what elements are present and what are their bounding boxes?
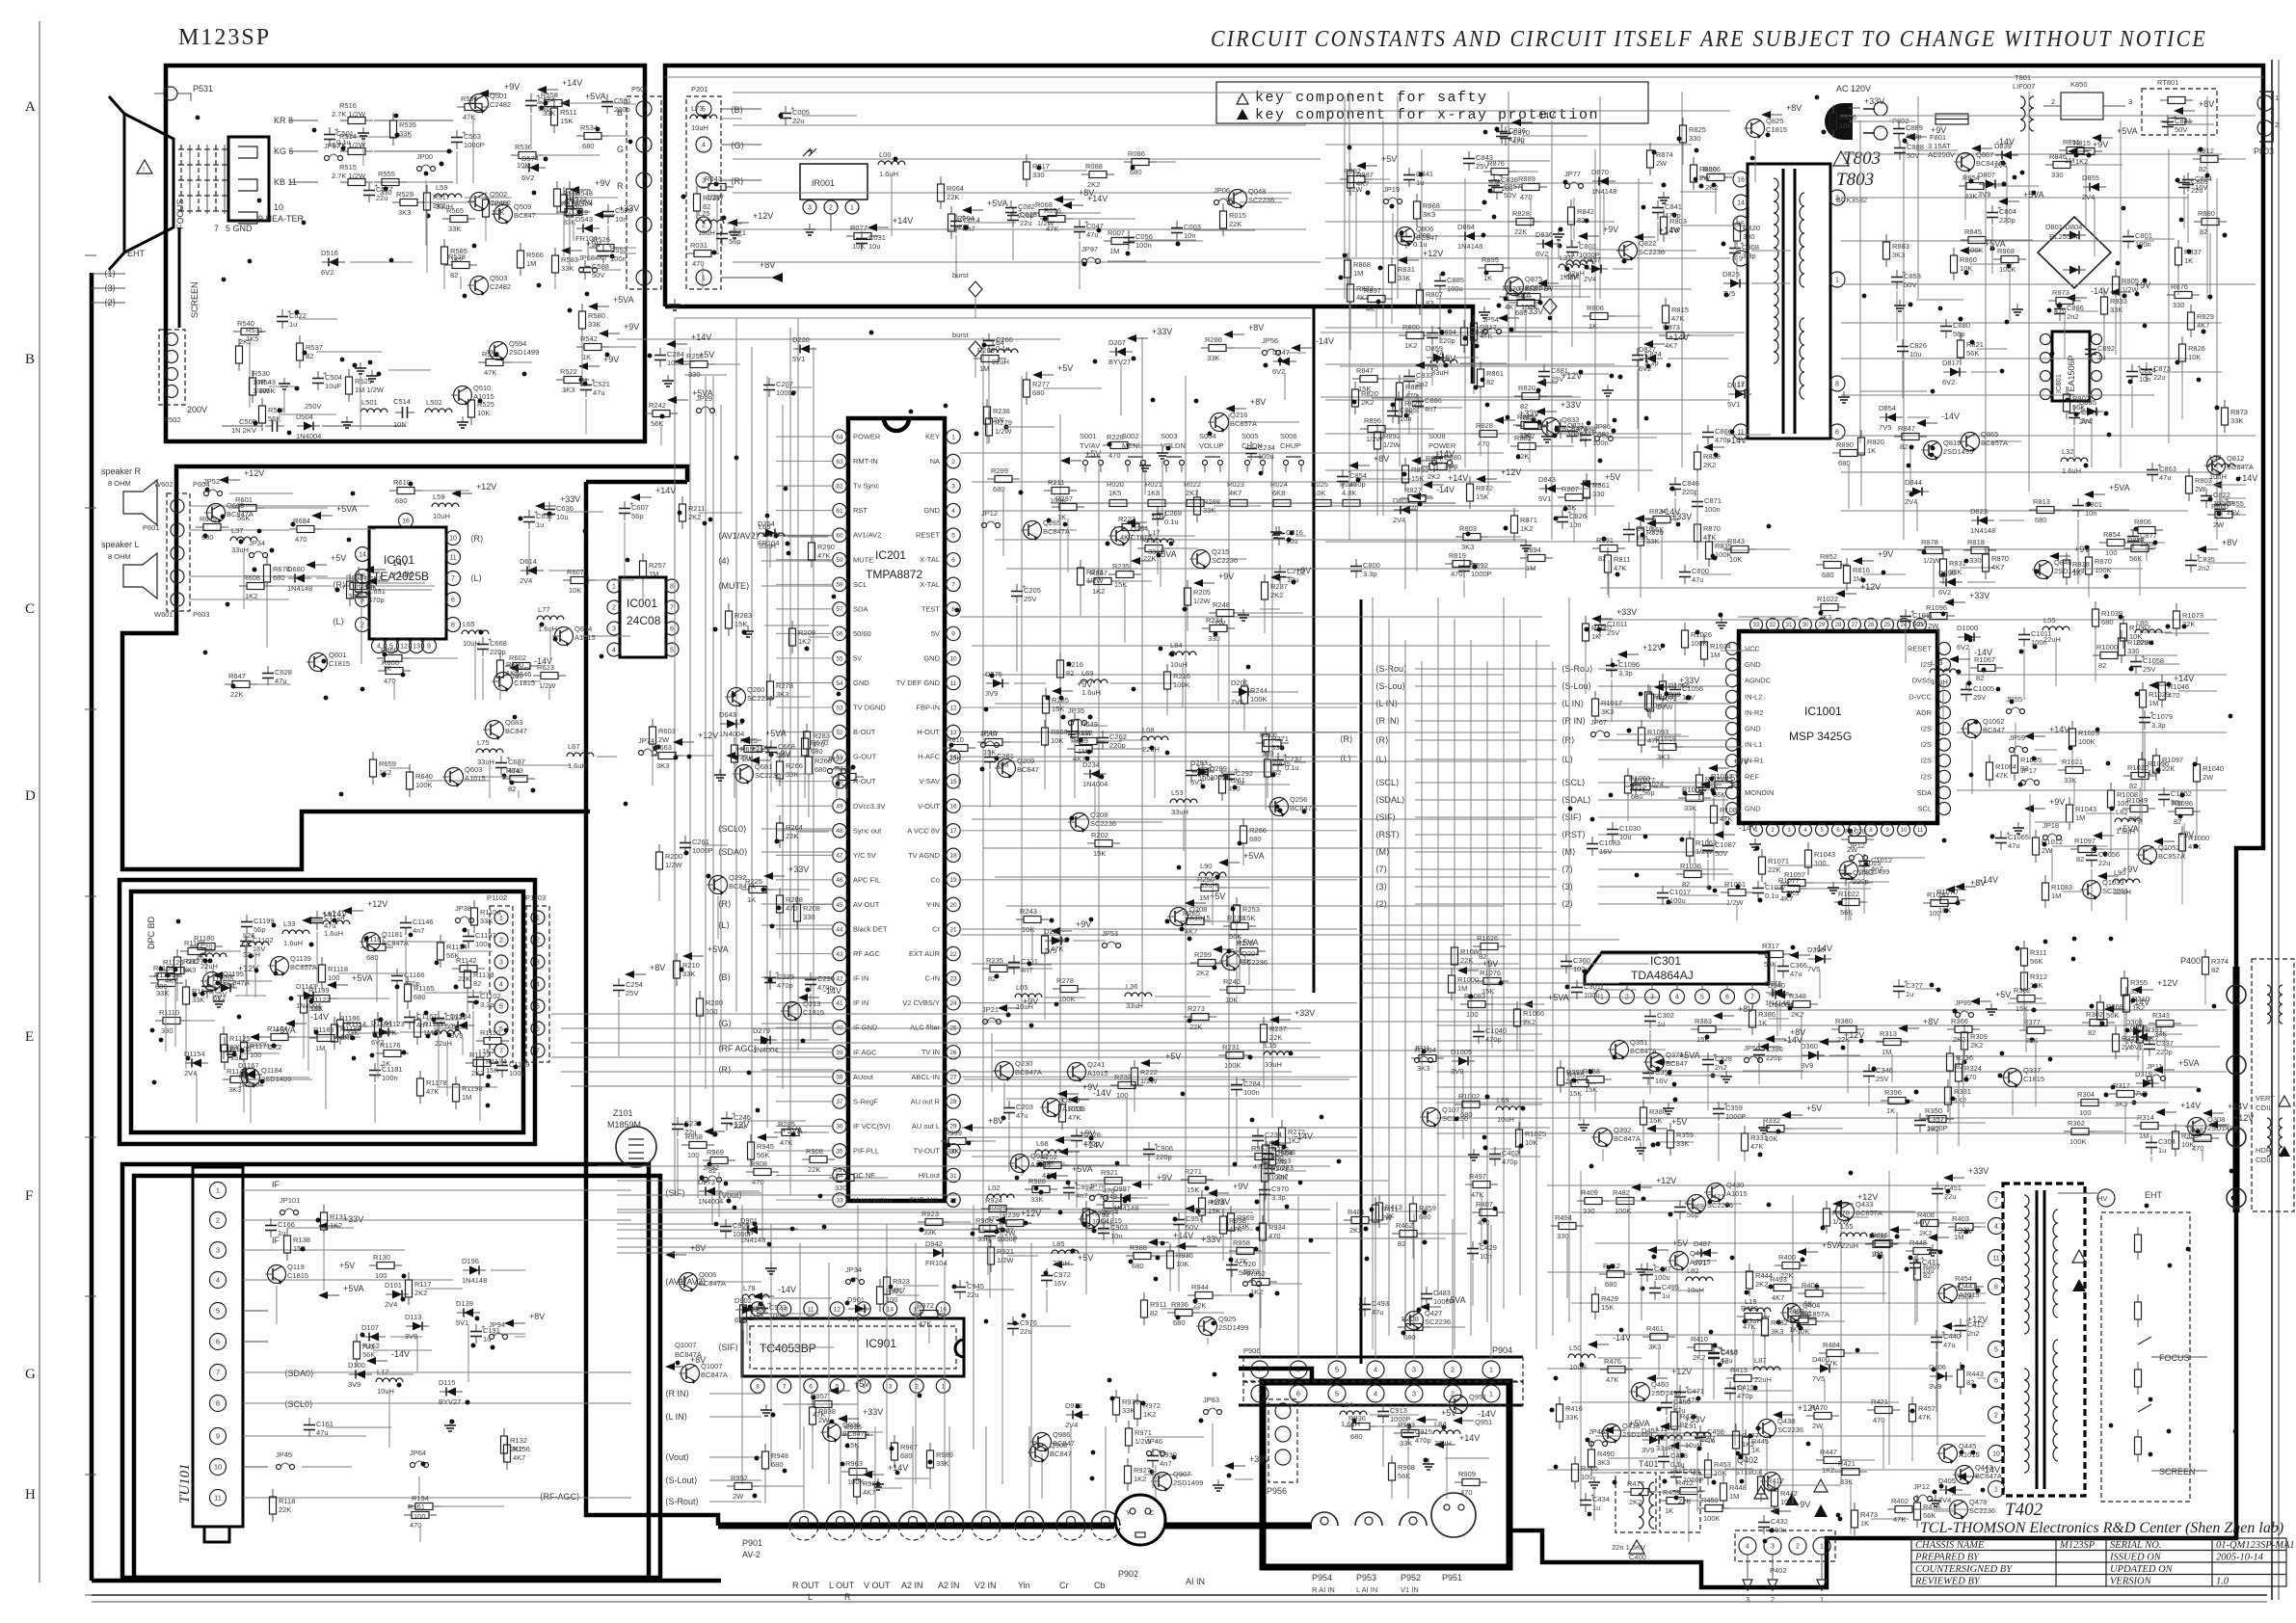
svg-text:GND: GND	[923, 506, 940, 515]
svg-text:100K: 100K	[1058, 995, 1076, 1003]
IC801 TEA1506P SMPS controller	[2052, 332, 2090, 401]
capacitor ctr66	[1228, 767, 1230, 775]
resistor msp87	[2141, 752, 2143, 759]
svg-text:R870: R870	[1703, 524, 1721, 533]
diode pwr97	[1536, 243, 1543, 245]
svg-text:47: 47	[836, 853, 843, 860]
svg-text:11: 11	[1992, 1256, 1999, 1263]
capacitor pwr78	[1417, 394, 1419, 402]
resistor ctr14	[736, 748, 744, 750]
capacitor pwr10	[2073, 406, 2075, 413]
ground ctr7	[667, 375, 669, 381]
svg-text:R253: R253	[1242, 905, 1260, 914]
svg-text:Q265: Q265	[1043, 519, 1060, 527]
svg-text:R1198: R1198	[462, 1084, 483, 1093]
ground bot6	[765, 1404, 767, 1410]
inductor pwr21	[1559, 264, 1586, 268]
svg-text:D823: D823	[1970, 507, 1988, 516]
svg-text:63: 63	[836, 459, 843, 466]
S-video jack P902	[1115, 1495, 1165, 1545]
resistor pwr24	[1419, 282, 1421, 290]
inductor ctr91	[1015, 994, 1042, 998]
svg-text:22K: 22K	[1189, 1023, 1202, 1031]
resistor ctr42	[1052, 506, 1059, 508]
resistor pwr81	[2181, 336, 2183, 344]
ground dpc2	[229, 1046, 231, 1051]
svg-text:8 OHM: 8 OHM	[108, 552, 131, 561]
svg-text:100K: 100K	[1270, 1173, 1288, 1182]
svg-text:15K: 15K	[1052, 705, 1064, 713]
capacitor pw26	[1666, 1396, 1668, 1403]
svg-text:R015: R015	[1229, 211, 1246, 220]
resistor crt11	[581, 304, 583, 311]
resistor vert46	[2099, 995, 2101, 1002]
transistor pwr32	[1962, 433, 1980, 451]
resistor tun11	[503, 1428, 505, 1436]
svg-text:R684: R684	[293, 517, 310, 525]
svg-text:1K: 1K	[2072, 569, 2081, 577]
capacitor msp37	[1662, 886, 1664, 893]
svg-text:Q260: Q260	[747, 685, 764, 694]
resistor top4	[696, 186, 698, 194]
resistor dpc52	[466, 1062, 473, 1064]
svg-text:2W: 2W	[2213, 520, 2225, 529]
main board outline right-bottom	[1509, 1212, 2236, 1587]
svg-text:3: 3	[889, 1383, 893, 1390]
svg-text:56p: 56p	[631, 512, 644, 520]
capacitor ctr15	[810, 972, 812, 980]
svg-text:P601: P601	[143, 523, 160, 532]
svg-text:6V2: 6V2	[321, 268, 334, 277]
svg-text:47K: 47K	[384, 1028, 396, 1037]
svg-text:D836: D836	[1535, 230, 1553, 239]
resistor ctr103	[1044, 490, 1052, 492]
diode vert22	[1808, 958, 1815, 960]
svg-text:7V5: 7V5	[1231, 698, 1243, 706]
svg-text:7: 7	[951, 582, 955, 589]
svg-text:C880: C880	[1953, 321, 1970, 330]
svg-text:Y: Y	[1126, 1508, 1131, 1517]
IC001 24C08 eeprom	[620, 577, 666, 657]
svg-text:10u: 10u	[556, 513, 569, 521]
svg-text:2: 2	[2275, 120, 2279, 129]
svg-text:31: 31	[1786, 623, 1793, 628]
svg-text:1.6uH: 1.6uH	[283, 939, 303, 947]
svg-text:C229: C229	[777, 972, 794, 981]
svg-text:T401: T401	[1639, 1459, 1659, 1469]
svg-text:R607: R607	[567, 568, 584, 576]
capacitor pwr161	[1543, 364, 1545, 372]
svg-text:25V: 25V	[1551, 375, 1563, 384]
capacitor ctr21	[1008, 1101, 1010, 1108]
svg-text:Q048: Q048	[1248, 187, 1266, 196]
resistor msp16	[1780, 882, 1788, 884]
svg-text:Cr: Cr	[1059, 1581, 1069, 1590]
svg-text:E: E	[25, 1029, 34, 1045]
svg-text:+9V: +9V	[1082, 1082, 1098, 1092]
svg-text:Q501: Q501	[490, 92, 507, 100]
svg-text:6: 6	[670, 626, 674, 633]
speaker terminal strip P604	[167, 493, 190, 611]
svg-text:3: 3	[1412, 1366, 1416, 1374]
ground ctr85	[1161, 447, 1163, 453]
capacitor pwr124	[1493, 173, 1495, 181]
transistor bot48	[1011, 1155, 1029, 1173]
svg-text:R806: R806	[2134, 518, 2151, 526]
resistor aud25	[499, 652, 501, 660]
svg-text:22K: 22K	[947, 193, 959, 201]
svg-text:R826: R826	[2188, 344, 2205, 353]
svg-text:56p: 56p	[1953, 330, 1965, 338]
CRT socket	[228, 137, 269, 221]
transistor dpc5	[242, 1069, 260, 1087]
resistor crt7	[478, 361, 486, 363]
resistor pw284	[1774, 1481, 1775, 1489]
resistor bot8	[1115, 1390, 1117, 1397]
svg-text:15K: 15K	[1411, 474, 1424, 483]
svg-text:R847: R847	[1356, 366, 1374, 375]
svg-text:S008: S008	[1428, 432, 1446, 440]
transistor msp7	[1423, 1108, 1441, 1127]
resistor vert60	[2082, 1022, 2090, 1024]
svg-text:330: 330	[803, 913, 815, 921]
resistor msp38	[1989, 755, 1990, 762]
resistor vert71	[2186, 1137, 2194, 1139]
P501 connector	[627, 96, 661, 289]
resistor aud27	[389, 490, 397, 492]
svg-text:D: D	[25, 788, 36, 804]
capacitor vert29	[1758, 1043, 1760, 1051]
svg-text:5: 5	[670, 648, 674, 654]
resistor pw20	[1834, 1471, 1842, 1473]
resistor vert18	[1642, 1100, 1644, 1107]
resistor pw255	[1826, 1201, 1828, 1209]
svg-text:R876: R876	[2171, 282, 2188, 291]
svg-text:1K2: 1K2	[506, 669, 519, 678]
resistor ctr50	[974, 358, 981, 359]
svg-text:L AI IN: L AI IN	[1356, 1585, 1377, 1594]
resistor msp77	[1594, 691, 1596, 699]
svg-text:1M: 1M	[1078, 747, 1087, 756]
svg-text:R819: R819	[1449, 551, 1466, 560]
svg-text:⟨RF AGC⟩: ⟨RF AGC⟩	[718, 1044, 758, 1053]
svg-text:22K: 22K	[230, 690, 243, 699]
svg-text:1000P: 1000P	[2213, 499, 2234, 508]
svg-text:R666: R666	[1051, 728, 1068, 736]
svg-text:L84: L84	[1170, 641, 1183, 650]
capacitor crt2	[607, 204, 609, 212]
audio board outline	[122, 466, 687, 869]
svg-text:B-OUT: B-OUT	[853, 728, 876, 736]
capacitor top20	[1128, 230, 1130, 238]
resistor ctr58	[1281, 1120, 1283, 1128]
capacitor bot37	[1068, 1181, 1070, 1188]
resistor pwr109	[1894, 436, 1902, 438]
svg-text:470: 470	[295, 535, 307, 544]
diode pwr148	[1979, 183, 1986, 185]
resistor pwr18	[1422, 466, 1429, 467]
resistor msp56	[1676, 873, 1684, 875]
AC plug	[1825, 103, 1853, 140]
capacitor msp15	[1674, 682, 1676, 690]
svg-text:25: 25	[1884, 623, 1891, 628]
svg-text:+33V: +33V	[1864, 96, 1884, 106]
inductor bot15	[742, 1294, 769, 1298]
resistor bot39	[1188, 1294, 1195, 1296]
svg-text:JP38: JP38	[455, 904, 471, 913]
svg-text:37: 37	[836, 1099, 843, 1105]
jumper vert64	[2148, 1077, 2152, 1081]
svg-text:1/2W: 1/2W	[1923, 556, 1940, 565]
svg-text:7: 7	[783, 1383, 787, 1390]
svg-text:7: 7	[499, 1049, 503, 1055]
svg-text:C668: C668	[778, 742, 795, 751]
resistor tun4	[369, 1264, 377, 1266]
svg-text:1N4148: 1N4148	[1970, 526, 1995, 535]
resistor pwr19	[1607, 547, 1609, 555]
svg-text:R273: R273	[1188, 1004, 1205, 1013]
inductor msp46	[1930, 669, 1957, 673]
svg-text:D254: D254	[758, 519, 775, 528]
svg-text:+9V: +9V	[624, 322, 639, 332]
svg-text:R659: R659	[379, 759, 396, 768]
capacitor pwr64	[1405, 229, 1407, 237]
svg-text:R209: R209	[798, 628, 815, 637]
svg-text:TCL-THOMSON Electronics R&D Ce: TCL-THOMSON Electronics R&D Center (Shen…	[1920, 1520, 2283, 1536]
capacitor dpc1	[467, 929, 469, 937]
svg-text:R256: R256	[686, 352, 704, 360]
svg-text:RESET: RESET	[916, 531, 940, 540]
svg-text:+14V: +14V	[392, 570, 413, 579]
capacitor dpc17	[245, 934, 247, 942]
svg-text:22K: 22K	[458, 974, 470, 983]
svg-text:24C08: 24C08	[627, 614, 661, 627]
svg-text:I2S: I2S	[1921, 740, 1932, 749]
transistor pw25	[1632, 1383, 1650, 1401]
capacitor ctr38	[1268, 1161, 1270, 1169]
svg-text:BC847A: BC847A	[701, 1370, 728, 1379]
resistor ctr72	[1137, 547, 1145, 549]
resistor pwr18	[1499, 296, 1507, 298]
svg-text:+5V: +5V	[1057, 363, 1073, 373]
diode pwr65	[1971, 519, 1978, 521]
resistor bot36	[879, 1279, 881, 1287]
resistor vert57	[2023, 941, 2025, 948]
power region verticals	[1349, 92, 2217, 540]
svg-text:330: 330	[161, 1026, 174, 1035]
capacitor pwr152	[2151, 463, 2153, 470]
svg-text:R822: R822	[1356, 284, 1374, 293]
svg-text:5: 5	[1335, 1366, 1339, 1374]
inductor ctr10	[1081, 679, 1108, 683]
resistor dpc21	[155, 1020, 163, 1022]
diode ctr108	[1045, 940, 1052, 942]
capacitor pw254	[1679, 1200, 1681, 1208]
svg-text:AU out L: AU out L	[912, 1122, 940, 1131]
svg-text:R1171: R1171	[250, 1042, 271, 1051]
inductor bot4	[1340, 1411, 1367, 1415]
svg-text:R843: R843	[1727, 537, 1745, 545]
svg-text:R225: R225	[745, 877, 762, 886]
svg-text:1K: 1K	[1483, 274, 1492, 282]
wire long runs	[1313, 306, 1316, 993]
svg-text:+14V: +14V	[893, 216, 913, 226]
svg-text:P201: P201	[691, 85, 708, 93]
svg-text:16: 16	[940, 1306, 948, 1313]
svg-text:FOCUS: FOCUS	[2159, 1353, 2190, 1363]
svg-text:33uH: 33uH	[231, 545, 249, 554]
resistor bot12	[1126, 1255, 1134, 1257]
diode pwr159	[1592, 180, 1599, 182]
svg-text:C2482: C2482	[490, 100, 511, 109]
capacitor top5	[955, 214, 957, 222]
resistor crt34	[569, 181, 571, 189]
resistor crt10	[576, 346, 584, 348]
svg-text:6V2: 6V2	[1535, 250, 1548, 258]
degauss plug P803	[2259, 92, 2273, 142]
svg-text:1000P: 1000P	[1471, 570, 1492, 578]
svg-text:2W: 2W	[2042, 846, 2053, 855]
resistor msp78	[2069, 797, 2070, 805]
svg-text:R860: R860	[1960, 255, 1977, 264]
jumper crt6	[325, 156, 330, 161]
svg-text:R800: R800	[1402, 323, 1420, 332]
capacitor msp43	[1591, 837, 1593, 844]
svg-text:56p: 56p	[254, 925, 266, 934]
svg-text:+5V: +5V	[339, 1261, 355, 1270]
svg-text:2K2: 2K2	[471, 1069, 484, 1078]
svg-text:16: 16	[402, 519, 410, 525]
svg-text:33K: 33K	[399, 129, 412, 138]
diode pwr47	[1728, 393, 1735, 395]
svg-text:⟨S-Rou⟩: ⟨S-Rou⟩	[1562, 664, 1593, 674]
ground pwr132	[1607, 385, 1609, 390]
svg-text:10u: 10u	[868, 242, 881, 251]
svg-text:R232: R232	[1114, 1073, 1132, 1081]
svg-text:R515: R515	[339, 163, 357, 172]
svg-text:7: 7	[1258, 1366, 1262, 1374]
svg-text:+9V: +9V	[1603, 225, 1618, 234]
svg-text:1N4004: 1N4004	[719, 730, 744, 738]
svg-text:A1015: A1015	[465, 774, 486, 783]
svg-text:⟨SCL⟩: ⟨SCL⟩	[1562, 778, 1586, 787]
capacitor pw236	[1663, 1450, 1665, 1457]
svg-text:33uH: 33uH	[1265, 1060, 1282, 1069]
resistor pwr11	[1347, 253, 1348, 260]
svg-text:Q812: Q812	[2227, 454, 2244, 463]
resistor pwr15	[1515, 296, 1523, 298]
svg-text:⟨SDAL⟩: ⟨SDAL⟩	[1562, 795, 1591, 805]
svg-text:⟨B⟩: ⟨B⟩	[718, 972, 731, 982]
resistor top2	[1104, 240, 1111, 242]
svg-text:Q825: Q825	[1766, 117, 1783, 125]
capacitor pw232	[1960, 1318, 1962, 1326]
ground msp82	[2017, 822, 2019, 828]
svg-text:4K7: 4K7	[1991, 563, 2004, 572]
svg-text:G: G	[617, 145, 624, 154]
svg-text:L02: L02	[988, 1184, 1001, 1192]
svg-text:S-RegF: S-RegF	[853, 1097, 878, 1105]
resistor pwr92	[2130, 529, 2138, 531]
capacitor bot8	[989, 1224, 991, 1232]
svg-text:D1000: D1000	[1957, 624, 1978, 632]
svg-text:2K2: 2K2	[1703, 461, 1716, 469]
capacitor bot1	[1264, 1183, 1266, 1190]
svg-text:10n: 10n	[615, 215, 627, 224]
svg-text:6: 6	[1296, 1390, 1300, 1398]
capacitor pwr146	[1707, 425, 1709, 433]
svg-text:R828: R828	[1512, 209, 1530, 218]
capacitor pwr66	[1571, 240, 1573, 248]
svg-text:D516: D516	[321, 249, 338, 257]
svg-text:6V2: 6V2	[1272, 367, 1285, 376]
resistor pw293	[1783, 1318, 1791, 1320]
svg-text:680: 680	[273, 573, 285, 582]
resistor vert36	[2073, 1102, 2081, 1104]
svg-text:2K2: 2K2	[1428, 472, 1440, 481]
svg-text:R870: R870	[1991, 554, 2009, 563]
svg-text:2: 2	[1451, 1366, 1455, 1374]
svg-text:BC847: BC847	[514, 211, 536, 220]
capacitor pw28	[1713, 1346, 1715, 1354]
resistor pw287	[1906, 1250, 1913, 1252]
svg-text:56: 56	[836, 631, 843, 638]
resistor crt33	[444, 264, 452, 266]
svg-text:Q215: Q215	[1212, 547, 1229, 556]
svg-text:L53: L53	[1171, 788, 1184, 797]
transistor pw221	[1707, 1184, 1725, 1202]
svg-text:23: 23	[949, 975, 957, 982]
resistor crt22	[426, 185, 428, 193]
capacitor pwr140	[1501, 124, 1503, 132]
inductor bot57	[1035, 1150, 1062, 1154]
svg-text:3K3: 3K3	[398, 208, 411, 217]
svg-text:⟨S-Rou⟩: ⟨S-Rou⟩	[1375, 664, 1407, 674]
inductor pw227	[1686, 1277, 1713, 1281]
transistor pw217	[1670, 1252, 1689, 1270]
capacitor msp28	[1612, 822, 1614, 830]
svg-text:-14V: -14V	[1728, 436, 1747, 445]
svg-text:56p: 56p	[538, 104, 550, 113]
svg-text:+5VA: +5VA	[585, 92, 606, 101]
resistor crt1	[233, 331, 241, 333]
svg-text:Q510: Q510	[473, 384, 491, 392]
resistor pwr23	[1832, 452, 1840, 454]
svg-text:33: 33	[1753, 623, 1760, 628]
svg-text:22uH: 22uH	[992, 358, 1009, 366]
jumper msp91	[2021, 781, 2026, 785]
svg-text:R861: R861	[1486, 369, 1504, 378]
svg-text:250V: 250V	[305, 402, 322, 411]
resistor top2	[701, 186, 708, 188]
svg-text:R825: R825	[1689, 125, 1706, 134]
inductor ctr79	[1264, 1051, 1291, 1055]
resistor ctr41	[808, 749, 810, 757]
resistor ctr47	[1202, 627, 1210, 629]
T803 SMPS transformer	[1748, 164, 1830, 439]
svg-text:R663: R663	[654, 743, 672, 752]
DPC board outline	[120, 880, 535, 1144]
svg-text:JP56: JP56	[1262, 336, 1278, 345]
svg-text:330: 330	[1689, 134, 1701, 143]
svg-text:JP12: JP12	[981, 509, 998, 518]
svg-text:3: 3	[1412, 1390, 1416, 1398]
svg-text:R602: R602	[356, 581, 373, 590]
T401 driver transformer	[1615, 1473, 1656, 1532]
svg-text:⟨M⟩: ⟨M⟩	[1562, 847, 1576, 857]
resistor aud12	[1267, 752, 1268, 759]
resistor vert44	[1881, 1100, 1888, 1102]
